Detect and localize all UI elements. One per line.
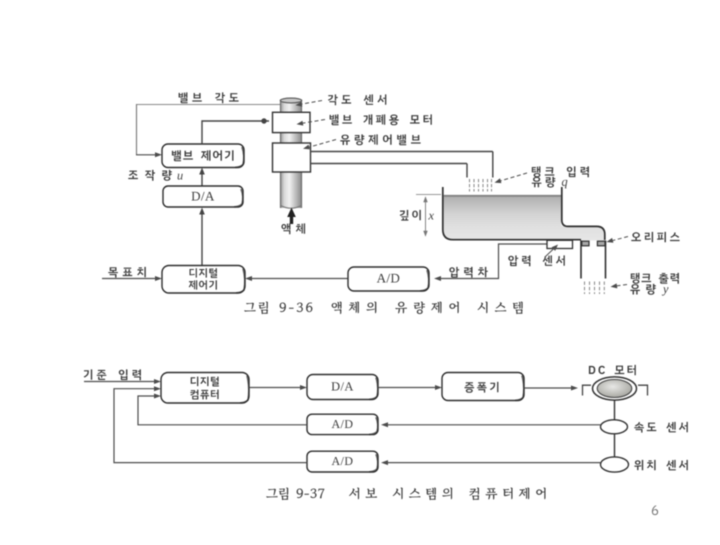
- pressure sensor rect: [547, 240, 573, 248]
- digital controller box 디지털 제어기: [162, 266, 245, 294]
- A/D box (fig 9-36): [348, 267, 429, 291]
- vertical pipe (liquid supply through valve): [281, 100, 302, 208]
- wire+arrow: digital controller up to D/A: [201, 211, 203, 266]
- shaft: speed to position sensor: [614, 434, 616, 458]
- A/D box 2 (position): [307, 451, 378, 472]
- label: 밸브 개폐용 모터 (valve open/close motor) with leader: [330, 114, 432, 125]
- liquid inflow arrow 액체: [290, 214, 293, 224]
- label: 위치 센서: [634, 460, 688, 471]
- wire+arrow: D/A to amplifier: [378, 387, 436, 389]
- orifice blocks: [582, 241, 589, 246]
- position sensor ellipse: [601, 457, 629, 472]
- digital computer box 디지털 컴퓨터: [161, 373, 249, 404]
- label: 압력 센서 with leader: [508, 255, 565, 266]
- label: 조작량 u (manipulated value): [128, 170, 172, 181]
- motor on valve: box 밸브 개폐용 모터: [273, 112, 311, 132]
- wire+arrow: position sensor to A/D 2: [387, 462, 600, 464]
- wire: valve-angle feedback (top horizontal): [136, 104, 281, 106]
- page number 6: [652, 506, 658, 516]
- label: 깊이 x: [400, 210, 421, 221]
- depth dimension: extension line: [416, 194, 441, 196]
- flow control valve box 유량제어밸브: [273, 143, 311, 172]
- label: 밸브 각도 (valve angle): [179, 92, 239, 103]
- label: 압력차 (pressure) on wire: [449, 267, 488, 278]
- wire: A/D1 back to computer: [138, 396, 307, 425]
- shaft: motor to speed sensor: [614, 400, 616, 420]
- label: 속도 센서: [634, 422, 688, 433]
- speed sensor ellipse: [601, 420, 628, 434]
- label: 탱크 출력 유량 y with leader: [631, 273, 679, 284]
- junction dot near motor: [261, 118, 266, 123]
- label: DC 모터: [589, 365, 636, 375]
- wire+arrow: speed sensor to A/D 1: [387, 424, 600, 426]
- caption 그림 9-36: [244, 301, 312, 314]
- drain pipe walls: [580, 241, 582, 279]
- wire+arrow: reference into computer: [84, 381, 155, 383]
- label: 각도 센서 (angle sensor) with leader: [328, 94, 386, 105]
- water surface line: [444, 195, 562, 197]
- wire+arrow: D/A up to valve controller: [201, 172, 203, 186]
- downpipe into tank: [492, 152, 494, 178]
- wire+arrow: A/D to digital controller: [251, 278, 348, 280]
- A/D box 1 (speed): [307, 414, 378, 434]
- depth dimension line with arrows: [425, 199, 427, 234]
- DC motor: outer ellipse: [593, 377, 637, 400]
- label: 목표치 (reference): [108, 267, 146, 278]
- wire: feedback left vertical down to valve controller: [136, 104, 138, 155]
- wire: valve controller to motor (up and right): [202, 121, 269, 144]
- label: 탱크 입력 유량 q with leader: [532, 166, 589, 177]
- DC motor: inner rotor: [597, 380, 632, 398]
- tank left wall: [443, 187, 581, 240]
- wire: A/D2 back to computer: [114, 389, 307, 463]
- wire+arrow: reference into digital controller: [102, 278, 156, 280]
- label: 액체: [281, 223, 305, 234]
- DC motor: mounts: [583, 385, 592, 395]
- wire+arrow: computer to D/A: [249, 387, 301, 389]
- label: 기준 입력 (reference input): [84, 369, 141, 380]
- tank right wall curving into outlet channel: [562, 187, 605, 240]
- D/A box (fig 9-37): [307, 375, 378, 400]
- wire: arrow into valve controller left: [136, 154, 156, 156]
- falling water dashes: [469, 179, 471, 192]
- outflow dashes: [584, 282, 586, 295]
- tank body water fill: [444, 196, 605, 241]
- amplifier box 증폭기: [442, 373, 524, 401]
- valve controller box 밸브 제어기: [162, 144, 244, 168]
- caption 그림 9-37: [266, 487, 324, 500]
- wire+arrow: amplifier to DC motor: [524, 387, 572, 389]
- wire: pressure sensor to A/D: [440, 244, 547, 279]
- label: 유량제어밸브 (flow control valve) with leader: [340, 134, 420, 145]
- label: 오리피스 with leader: [631, 232, 679, 242]
- horizontal pipe from valve to tank: [311, 151, 493, 153]
- D/A box (fig 9-36): [163, 186, 243, 207]
